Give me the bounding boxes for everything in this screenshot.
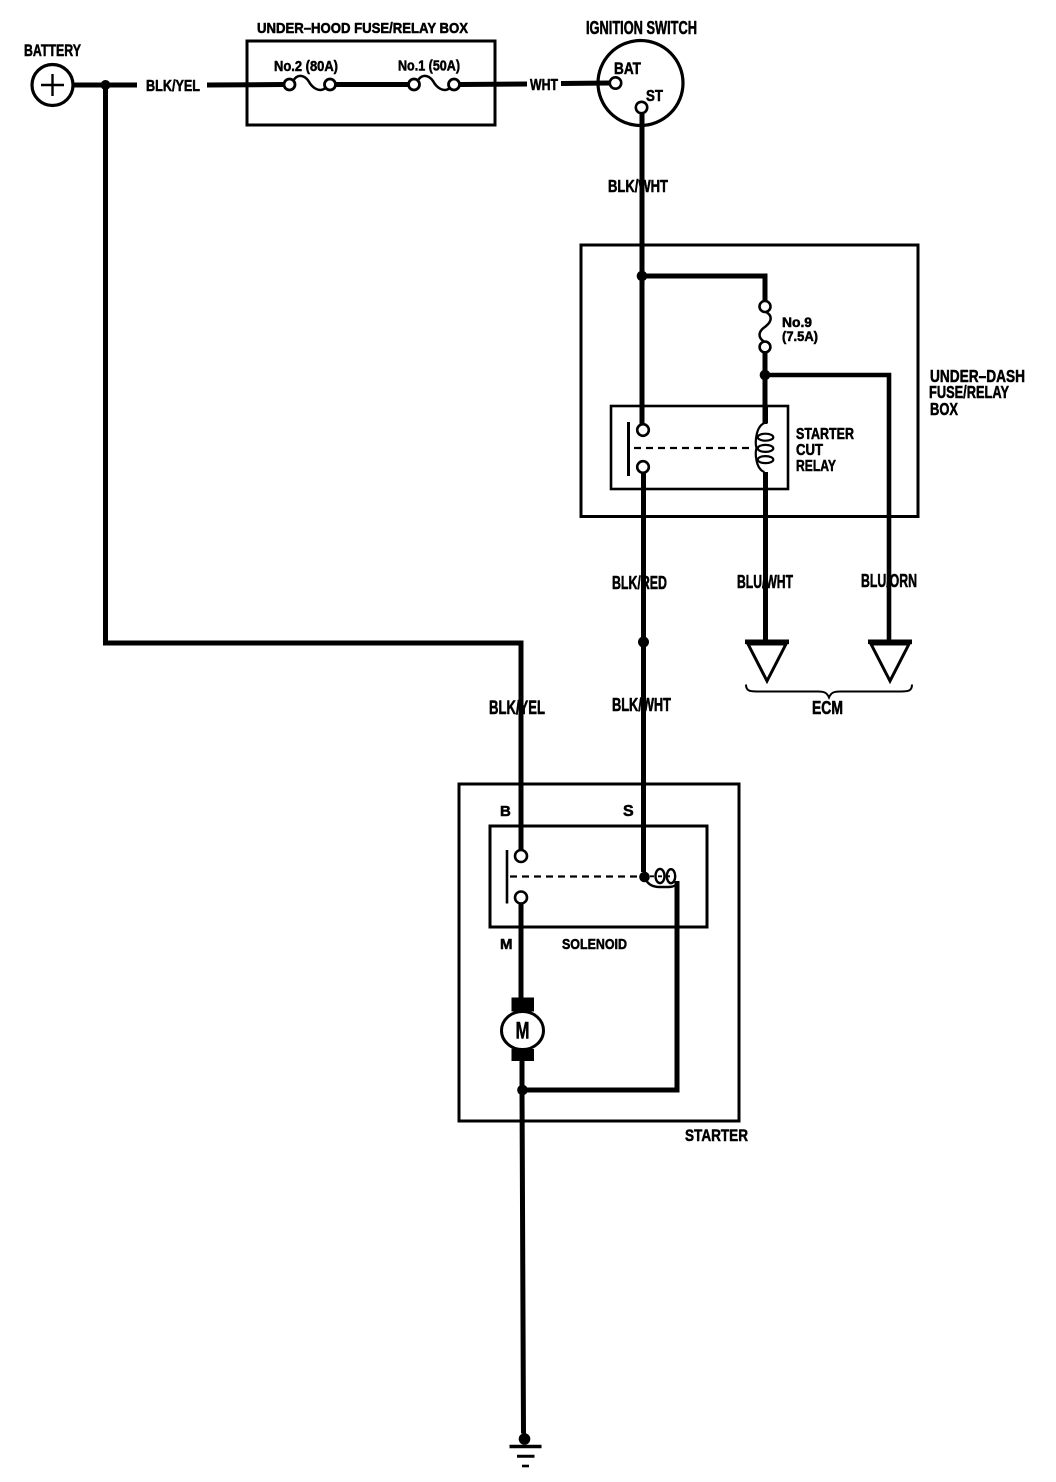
svg-text:WHT: WHT: [530, 77, 558, 94]
svg-text:BLK/YEL: BLK/YEL: [489, 698, 545, 719]
node E (solenoid coil junction): [639, 872, 650, 883]
wire motor to ground: [522, 1060, 524, 1434]
svg-text:BLK/YEL: BLK/YEL: [146, 78, 200, 95]
svg-text:UNDER–HOOD FUSE/RELAY BOX: UNDER–HOOD FUSE/RELAY BOX: [257, 21, 468, 37]
svg-text:No.2 (80A): No.2 (80A): [274, 58, 338, 75]
svg-text:STARTER: STARTER: [796, 426, 854, 443]
wire WHT to ignition switch BAT: [561, 81, 610, 87]
solenoid actuator dashed link: [510, 875, 637, 877]
relay terminal top: [637, 424, 649, 436]
fuse No.2 (80A): [284, 76, 336, 90]
svg-text:BATTERY: BATTERY: [24, 41, 81, 60]
under-hood fuse/relay box: [247, 41, 495, 125]
wire relay to solenoid S (BLK/RED - BLK/WHT): [641, 473, 646, 872]
starter box: [459, 784, 739, 1121]
starter motor M1: [502, 998, 544, 1062]
wire battery to node A: [73, 83, 137, 88]
svg-text:SOLENOID: SOLENOID: [562, 936, 627, 953]
svg-text:B: B: [500, 803, 511, 820]
wire ST to starter cut relay: [640, 113, 645, 424]
svg-text:STARTER: STARTER: [685, 1126, 748, 1145]
wire node C to ECM BLU/ORN: [765, 375, 889, 640]
solenoid box: [490, 826, 707, 927]
svg-text:BLU/WHT: BLU/WHT: [737, 572, 793, 592]
wire solenoid coil to motor bottom: [522, 881, 677, 1090]
fuse No.1 (50A): [409, 76, 460, 90]
svg-text:M: M: [516, 1018, 530, 1045]
node C (branch to BLU/ORN): [760, 370, 771, 381]
wire fuse No.9 to relay coil: [763, 351, 768, 424]
solenoid terminal B: [515, 850, 527, 862]
relay coil: [756, 406, 773, 489]
svg-text:CUT: CUT: [796, 442, 823, 459]
relay actuator dashed link: [634, 447, 754, 449]
svg-text:BLK/WHT: BLK/WHT: [608, 176, 668, 196]
svg-text:BAT: BAT: [614, 60, 641, 78]
label No.9 (7.5A): [782, 314, 818, 344]
label STARTER CUT RELAY: [796, 426, 854, 475]
relay contact plate: [627, 422, 630, 476]
node A (battery junction): [101, 80, 111, 90]
wire fuse No.2 to fuse No.1: [336, 82, 408, 87]
solenoid terminal M: [515, 892, 527, 904]
wire solenoid M to motor: [519, 904, 524, 1000]
under-dash fuse/relay box: [581, 245, 918, 517]
svg-text:BLK/WHT: BLK/WHT: [612, 695, 671, 715]
svg-text:BLK/RED: BLK/RED: [612, 572, 667, 593]
wire fuse No.1 to WHT label: [460, 82, 527, 88]
ECM terminal BLU/ORN (triangle): [868, 642, 912, 681]
terminal ST: [636, 102, 647, 113]
svg-text:M: M: [500, 936, 513, 953]
node B (branch to fuse No.9): [637, 271, 648, 282]
ECM terminal BLU/WHT (triangle): [745, 642, 789, 681]
svg-text:(7.5A): (7.5A): [782, 328, 818, 344]
ECM brace: [746, 685, 912, 698]
wire node B to fuse No.9: [642, 276, 765, 303]
relay terminal bottom: [637, 461, 649, 473]
solenoid contact plate: [506, 850, 509, 904]
svg-text:BLU/ORN: BLU/ORN: [861, 571, 917, 591]
battery: [32, 65, 73, 106]
svg-text:No.1 (50A): No.1 (50A): [398, 58, 460, 75]
node F (motor/solenoid coil junction): [517, 1085, 528, 1096]
svg-text:BOX: BOX: [930, 399, 958, 419]
wire relay coil to ECM BLU/WHT: [763, 489, 768, 640]
ground G101: [510, 1433, 542, 1466]
fuse No.9 (7.5A): [760, 301, 771, 352]
svg-text:ST: ST: [646, 88, 663, 105]
svg-text:RELAY: RELAY: [796, 458, 836, 475]
wire battery to starter B (BLK/YEL): [106, 85, 522, 850]
svg-text:ECM: ECM: [812, 698, 843, 718]
ignition switch: [598, 41, 683, 126]
label UNDER-DASH FUSE/RELAY BOX: [929, 366, 1025, 419]
svg-text:IGNITION SWITCH: IGNITION SWITCH: [586, 18, 697, 38]
terminal BAT: [610, 77, 621, 88]
solenoid coil: [645, 869, 677, 887]
wire BLK/YEL into fuse box: [207, 82, 284, 88]
starter cut relay box: [611, 406, 788, 489]
node D (connector BLK/RED to BLK/WHT): [638, 637, 649, 648]
svg-text:S: S: [623, 803, 634, 820]
